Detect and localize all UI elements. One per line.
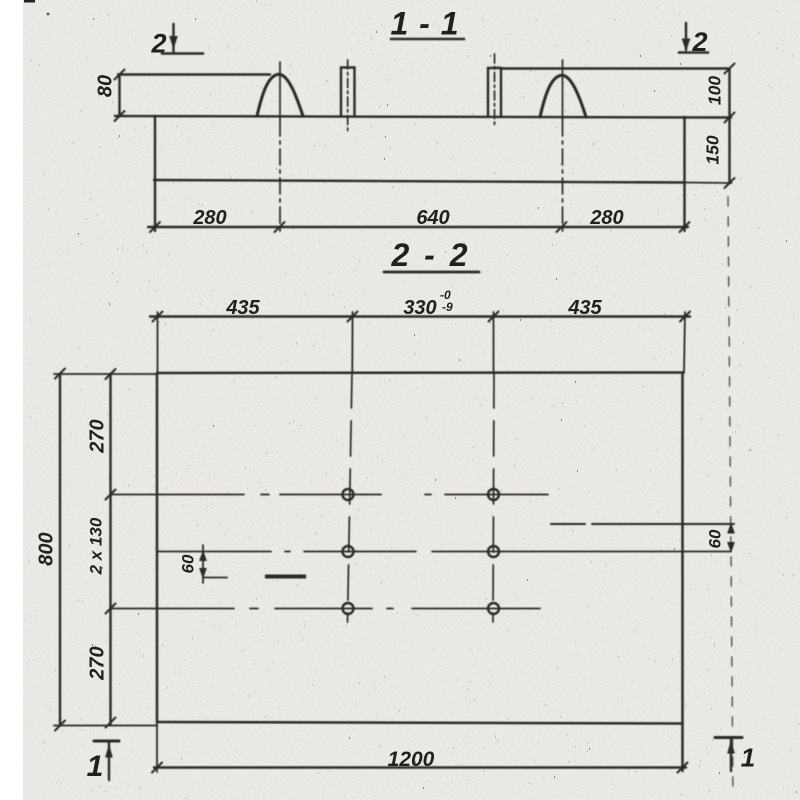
svg-text:1: 1 [87,750,104,783]
tick at 352.5 [348,312,358,322]
top extension line to dims [54,373,156,375]
section mark 1 right: top bar [715,736,742,739]
hole A3 [343,603,354,614]
extension right corner [684,312,685,373]
plan rectangle top edge [157,371,683,374]
svg-text:640: 640 [416,207,449,229]
bar 2 centerline [494,54,496,127]
plan rectangle left edge [156,373,159,722]
100/150 tick middle [725,113,735,123]
svg-text:270: 270 [86,646,108,680]
hole centerline row 2 [158,551,731,553]
hole A1 [343,489,354,500]
svg-text:2 x 130: 2 x 130 [86,517,105,575]
svg-text:60: 60 [178,554,197,573]
hole A2 [343,546,354,557]
section mark 2 left: arrowhead [170,37,177,48]
section mark 1 right: vertical stroke [730,739,732,771]
80-dim tick top [115,70,125,80]
left 60-dim lower arrow [200,569,206,578]
scan artifact top-left dash [24,0,35,3]
svg-text:100: 100 [705,76,725,105]
tick at 157.5 [153,312,163,322]
scan artifact dot [47,13,50,16]
1200 extension left [156,722,158,772]
title 2-2 underline [384,271,479,274]
inner tick row3 [106,604,116,614]
left 60-dim vertical [202,545,204,583]
svg-text:2 - 2: 2 - 2 [390,237,470,273]
lifting loop 1 [257,74,303,116]
svg-text:280: 280 [192,207,226,229]
100-dim tick top [725,64,735,74]
embedded mark thick dash [265,575,306,579]
bar 1 centerline [347,60,349,131]
extension hole col 1 [351,312,353,373]
section mark 2 left: base line [162,52,203,55]
150-dim tick bottom [725,178,735,188]
svg-text:800: 800 [35,532,57,565]
bottom extension line to dims [54,725,156,727]
left outer 800-dim line [59,374,61,726]
bottom dimension line 280/640/280 [148,226,688,228]
svg-text:330: 330 [403,297,436,319]
hole B2 [488,546,499,557]
plan rectangle bottom edge [157,722,683,724]
hole B1 [488,489,499,500]
extension hole col 2 [493,312,495,373]
hole B3 [488,603,499,614]
hole centerline col 1 [348,373,353,622]
right 100/150 dim vertical [728,69,730,184]
lower slab bottom edge [154,180,685,183]
loop 1 centerline [279,62,281,120]
1200 tick left [152,763,162,773]
svg-text:270: 270 [86,419,108,453]
dim tick at 155 [150,222,160,232]
slab mid line (top of lower slab) [115,116,731,118]
section mark 2 right: arrowhead [682,39,689,50]
lower slab bottom dim extension right [685,182,732,185]
tick at 493.5 [489,312,499,322]
slab top edge right segment [502,67,729,69]
right 60-dim upper arrow [728,524,734,533]
dowel bar 1 [341,68,355,117]
lifting loop 2 [540,75,586,117]
lower slab right edge + dim extension [683,117,685,231]
bottom 1200-dim line [154,766,686,768]
svg-text:435: 435 [567,297,602,319]
left 60-dim reference short line [203,577,227,579]
hole centerline row 3 [111,608,540,610]
plan rectangle right edge + dim extension [681,373,684,772]
title 1-1 underline [391,38,464,41]
lower slab left edge + dim extension [154,116,156,231]
extension left corner [157,312,159,373]
svg-text:80: 80 [94,75,116,97]
svg-text:60: 60 [705,529,724,548]
dim tick at 561 [557,222,567,232]
800 tick bottom [55,721,65,731]
top dimension line 435/330/435 [150,315,690,317]
section mark 2 left: vertical arrow stroke [172,24,174,52]
inner tick top [106,369,116,379]
svg-text:2: 2 [691,27,707,57]
section mark 1 left: vertical stroke [108,743,110,780]
inner tick row1 [106,490,116,500]
hole centerline col 2 [493,373,494,622]
dowel bar 2 [488,68,501,117]
svg-text:1 - 1: 1 - 1 [390,6,459,42]
section mark 1 right: arrowhead up [728,742,734,753]
left 60-dim upper arrow [200,552,206,561]
right 60-dim lower arrow [728,543,734,552]
tick at 685 [680,312,690,322]
section mark 2 right: base line [679,51,708,54]
svg-text:-9: -9 [442,300,453,314]
page fold dashed line right [728,197,733,795]
svg-text:435: 435 [225,297,260,319]
white scanner strip left [0,0,23,800]
dim tick at 684 [680,222,690,232]
1200 tick right [678,763,688,773]
svg-text:2: 2 [150,29,166,59]
dim tick at 279 [275,222,285,232]
80-dim tick bottom [115,111,125,121]
right 60-dim upper reference line [551,523,585,525]
inner tick bottom [106,718,116,728]
svg-text:1200: 1200 [388,748,435,771]
hole centerline row 1 [111,494,560,496]
svg-text:150: 150 [703,135,723,164]
svg-text:1: 1 [741,743,755,773]
slab left edge / 80-dim line [118,75,120,117]
loop 2 centerline [562,60,564,120]
section mark 2 right: vertical arrow stroke [685,23,687,50]
left inner 270/2x130/270 dim line [109,374,111,725]
slab top edge left segment [118,73,270,75]
section mark 1 left: top bar [94,740,119,743]
section mark 1 left: arrowhead up [106,746,112,757]
svg-text:280: 280 [589,207,623,229]
800 tick top [55,369,65,379]
